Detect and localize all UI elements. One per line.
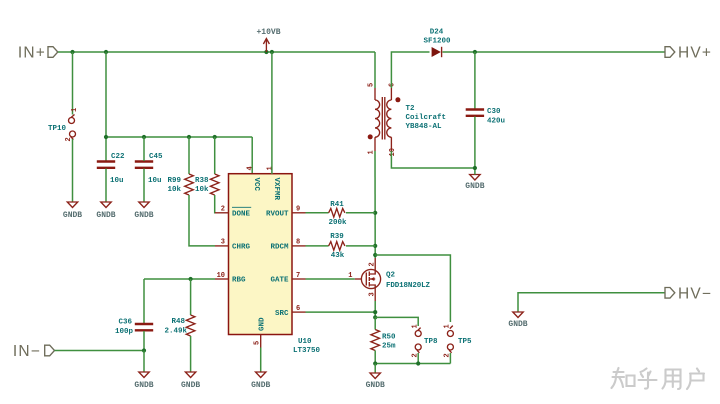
svg-text:100p: 100p (115, 328, 134, 336)
svg-text:C22: C22 (111, 153, 125, 161)
hierarchical label IN+ (18, 45, 58, 62)
svg-text:LT3750: LT3750 (293, 347, 321, 355)
wire HV- rail (518, 293, 665, 312)
wire C30 bottom to ground junction (474, 117, 476, 171)
svg-text:TP10: TP10 (48, 125, 67, 133)
ground GNDB (C45) (134, 202, 153, 220)
wire TP5 to bottom rail (449, 353, 451, 364)
pin 3 CHRG (215, 239, 251, 252)
hierarchical label HV+ (665, 45, 712, 62)
svg-text:GNDB: GNDB (508, 320, 527, 329)
svg-text:200k: 200k (328, 219, 347, 227)
ground GNDB (C22) (96, 202, 115, 220)
svg-text:GNDB: GNDB (181, 381, 200, 390)
capacitor C22 (97, 153, 125, 185)
svg-text:2: 2 (221, 206, 225, 214)
svg-text:T2: T2 (406, 105, 416, 113)
junction at VXFMR riser (270, 50, 274, 54)
svg-text:1: 1 (71, 108, 79, 112)
svg-text:GND: GND (259, 317, 267, 331)
resistor R38 (195, 137, 219, 213)
svg-text:TP8: TP8 (424, 338, 438, 346)
svg-text:GATE: GATE (270, 277, 289, 285)
svg-text:3: 3 (221, 239, 225, 247)
junction at C22 column (104, 50, 108, 54)
wire GND pin to ground (260, 348, 262, 372)
svg-text:R48: R48 (171, 318, 185, 326)
wire primary drop from rail (374, 52, 376, 88)
wire TP10 to ground (72, 139, 74, 202)
svg-text:SF1200: SF1200 (423, 38, 451, 46)
junction bus R99 (187, 135, 191, 139)
svg-text:2.49k: 2.49k (164, 328, 187, 336)
pin 1 VXFMR (266, 166, 280, 200)
svg-text:1: 1 (412, 324, 420, 328)
svg-text:RBG: RBG (232, 277, 246, 285)
capacitor C45 (135, 137, 163, 185)
test point TP8 (412, 324, 439, 357)
wire IN- (55, 350, 145, 352)
svg-text:GNDB: GNDB (465, 182, 484, 191)
svg-text:10u: 10u (148, 177, 162, 185)
svg-text:GNDB: GNDB (134, 211, 153, 220)
junction at TP10 column (70, 50, 74, 54)
resistor R99 (167, 137, 215, 246)
svg-text:VCC: VCC (252, 178, 260, 192)
svg-text:10u: 10u (110, 177, 124, 185)
svg-text:R41: R41 (330, 201, 344, 209)
watermark 知乎用户 (612, 368, 705, 389)
svg-text:FDD18N20LZ: FDD18N20LZ (386, 282, 430, 290)
wire RBG net (144, 278, 215, 280)
svg-text:5: 5 (368, 83, 376, 87)
test point TP10 (48, 108, 79, 142)
ground GNDB (R48) (181, 372, 200, 390)
svg-text:+10VB: +10VB (256, 28, 280, 37)
wire VXFMR riser (271, 52, 273, 174)
wire primary bottom to Q2 drain (374, 151, 376, 258)
svg-text:DONE: DONE (232, 210, 251, 218)
ground GNDB (U10 GND) (251, 372, 270, 390)
svg-text:43k: 43k (331, 252, 345, 260)
junction TP8 bottom (416, 361, 420, 365)
svg-text:GNDB: GNDB (366, 381, 385, 390)
svg-text:C30: C30 (487, 108, 501, 116)
wire Q2 drain stub (374, 258, 376, 270)
wire TP8 to bottom rail (417, 353, 419, 364)
resistor R48 (164, 279, 194, 372)
junction bus C45 (142, 135, 146, 139)
svg-text:R39: R39 (330, 233, 344, 241)
svg-text:8: 8 (296, 239, 300, 247)
ground GNDB (TP10) (63, 202, 82, 220)
svg-text:IN−: IN− (13, 343, 41, 360)
svg-text:GNDB: GNDB (134, 381, 153, 390)
pin 5 GND (254, 317, 267, 348)
wire C36 drop (143, 279, 145, 323)
svg-text:YB848-AL: YB848-AL (406, 123, 443, 131)
transformer T2 (368, 83, 447, 157)
junction bus R38 (213, 135, 217, 139)
wire TP10 drop (72, 52, 74, 115)
ground GNDB (HV-) (508, 312, 527, 329)
hierarchical label HV- (665, 285, 712, 302)
svg-text:TP5: TP5 (458, 338, 472, 346)
wire secondary bottom to C30 (391, 151, 475, 168)
junction IN-/C36 (142, 348, 146, 352)
pin 2 DONE (215, 206, 251, 219)
hierarchical label IN- (13, 343, 55, 360)
pin 8 RDCM (270, 239, 305, 252)
wire GATE to Q2 (306, 278, 355, 280)
wire C22 to ground (105, 169, 107, 202)
wire bottom rail (R50/TP8/TP5) (375, 363, 450, 365)
junction SRC (373, 310, 377, 314)
svg-text:HV−: HV− (678, 285, 712, 302)
wire TP5 branch (375, 255, 450, 322)
svg-text:D24: D24 (430, 29, 444, 37)
svg-text:RDCM: RDCM (270, 244, 289, 252)
svg-text:HV+: HV+ (678, 45, 712, 62)
pin 6 SRC (275, 305, 306, 318)
wire C30 column (474, 52, 476, 109)
wire secondary top to diode (391, 52, 429, 88)
pin 4 VCC (247, 166, 261, 191)
wire IN+ top rail (58, 51, 375, 53)
svg-text:R50: R50 (382, 334, 396, 342)
svg-text:R99: R99 (167, 177, 181, 185)
ground GNDB (IN-) (134, 372, 153, 390)
svg-text:C36: C36 (118, 319, 132, 327)
ground GNDB (C30) (465, 170, 484, 191)
op-amp U10 body LT3750 (229, 174, 321, 355)
pin 7 GATE (270, 272, 305, 285)
pin 9 RVOUT (266, 206, 306, 219)
svg-text:6: 6 (296, 305, 300, 313)
wire IN- junction to ground (143, 351, 145, 372)
diode D24 (423, 29, 451, 58)
resistor R39 (306, 233, 376, 260)
capacitor C36 (115, 319, 153, 337)
svg-text:6: 6 (389, 83, 397, 87)
svg-text:7: 7 (296, 272, 300, 280)
resistor R41 (306, 201, 376, 227)
junction at C30 top (473, 50, 477, 54)
svg-text:10: 10 (389, 148, 397, 156)
transistor Q2 (348, 262, 430, 296)
wire TP8 branch (375, 317, 418, 326)
junction RBG/R48 (189, 277, 193, 281)
svg-text:1: 1 (266, 166, 274, 170)
svg-text:Q2: Q2 (386, 271, 396, 279)
svg-text:CHRG: CHRG (232, 244, 251, 252)
svg-text:SRC: SRC (275, 310, 289, 318)
svg-text:10k: 10k (167, 186, 181, 194)
junction at +10VB (264, 50, 268, 54)
test point TP5 (444, 324, 472, 357)
wire SRC row (306, 311, 376, 313)
ground GNDB (R50) (366, 373, 385, 390)
junction bus C22 (104, 135, 108, 139)
svg-text:GNDB: GNDB (63, 211, 82, 220)
wire C22 riser and bus (106, 52, 252, 174)
junction at R41 (373, 211, 377, 215)
svg-text:5: 5 (254, 341, 262, 345)
junction at C30 bottom (473, 166, 477, 170)
svg-text:10: 10 (217, 272, 225, 280)
svg-text:RVOUT: RVOUT (266, 210, 289, 218)
svg-text:25m: 25m (382, 343, 396, 351)
svg-text:4: 4 (247, 166, 255, 170)
pin 10 RBG (215, 272, 246, 285)
junction R50 bottom (373, 361, 377, 365)
junction at TP5 branch (373, 253, 377, 257)
svg-text:C45: C45 (149, 153, 163, 161)
wire diode to HV+ (443, 51, 665, 53)
wire Q2 source to SRC row (374, 288, 376, 318)
svg-text:U10: U10 (298, 338, 312, 346)
svg-text:VXFMR: VXFMR (272, 178, 280, 201)
svg-text:420u: 420u (487, 118, 505, 126)
svg-text:Coilcraft: Coilcraft (406, 114, 447, 122)
wire C36 bottom to IN- junction (143, 331, 145, 351)
junction at R39 (373, 244, 377, 248)
resistor R50 (371, 317, 396, 363)
wire R50 bottom to ground (374, 364, 376, 373)
svg-text:9: 9 (296, 206, 300, 214)
wire C45 to ground (143, 169, 145, 202)
junction TP8 branch (373, 315, 377, 319)
svg-text:GNDB: GNDB (96, 211, 115, 220)
power symbol +10VB (256, 28, 280, 52)
capacitor C30 (466, 108, 505, 126)
svg-text:10k: 10k (195, 186, 209, 194)
svg-text:GNDB: GNDB (251, 381, 270, 390)
svg-text:1: 1 (348, 272, 352, 280)
svg-text:R38: R38 (195, 177, 209, 185)
svg-text:IN+: IN+ (18, 45, 46, 62)
